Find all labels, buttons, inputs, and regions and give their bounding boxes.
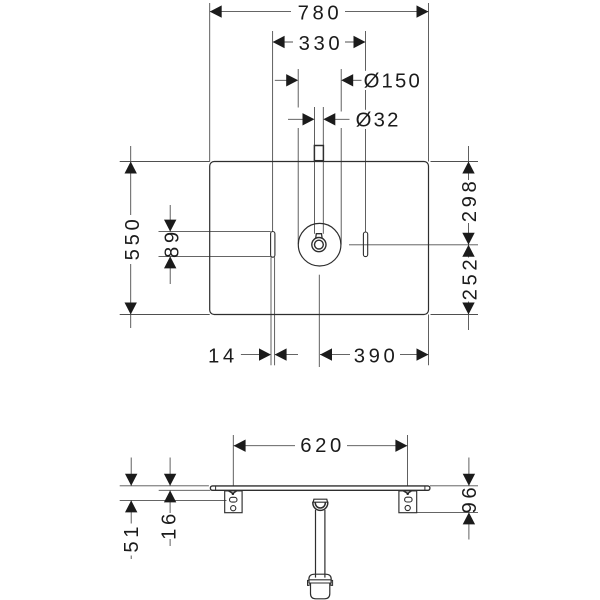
tap hole rect <box>314 146 323 161</box>
arrow 252 top <box>462 245 474 257</box>
arrow 16 top <box>164 474 176 486</box>
svg-text:51: 51 <box>121 523 143 553</box>
arrow 298 top <box>462 162 474 174</box>
arrow 96 top <box>463 474 475 486</box>
trap collar <box>309 574 331 583</box>
wire ext 89 top <box>159 231 271 233</box>
svg-text:89: 89 <box>161 228 183 258</box>
left slot <box>271 232 275 258</box>
wire ext 330 left <box>272 31 274 232</box>
svg-text:550: 550 <box>122 216 144 261</box>
svg-text:96: 96 <box>459 484 481 514</box>
wire ext 550 top <box>120 161 210 163</box>
arrow 620 right <box>395 440 407 452</box>
trap U ring <box>313 502 328 511</box>
svg-text:Ø32: Ø32 <box>356 110 401 132</box>
trap collar band <box>309 579 331 581</box>
label mask 252 <box>460 258 477 302</box>
wire ext d32 left <box>314 107 316 146</box>
wire ext 620 left <box>232 435 234 486</box>
wire ext right top <box>431 161 479 163</box>
arrow 620 left <box>234 440 246 452</box>
wire dim 330 line <box>273 41 293 43</box>
wire ext d150 left <box>297 69 299 108</box>
wire dim 16 line <box>169 458 171 486</box>
label mask 51 <box>122 524 139 556</box>
svg-text:16: 16 <box>159 510 181 540</box>
wire center line below circle <box>318 275 320 367</box>
wire ext lower bracket right <box>417 511 478 513</box>
bracket right clamp dot <box>406 493 409 496</box>
label mask d32 <box>352 110 404 129</box>
wire dim 780 line <box>210 11 291 13</box>
label mask d150 <box>362 71 424 90</box>
wire ext 390 right <box>428 315 430 366</box>
arrow 51 top <box>125 474 137 486</box>
label mask 16 <box>160 513 177 539</box>
bar end divider right <box>424 486 426 490</box>
wire dim 14 tails <box>241 354 263 356</box>
wire dim 51 line <box>130 458 132 486</box>
bracket right <box>399 491 417 513</box>
svg-text:330: 330 <box>299 33 344 55</box>
arrow 14 left <box>259 348 271 360</box>
drain ring inner <box>315 240 324 249</box>
wire dim 89 tails <box>169 205 171 232</box>
wire dim 550 line <box>130 146 132 328</box>
arrow 550 bottom <box>125 303 137 315</box>
arrow 14 right <box>275 348 287 360</box>
bracket left <box>225 491 242 513</box>
bracket right slot hole <box>405 497 413 502</box>
wire ext 89 bottom <box>159 255 271 257</box>
wire ext d32 right <box>322 107 324 146</box>
bar end divider left <box>215 486 217 490</box>
plate outline <box>210 162 429 315</box>
bracket right clamp mark <box>403 491 411 494</box>
bracket right round hole <box>405 505 410 510</box>
wire ext lower bar bottom left <box>159 489 211 491</box>
arrow 390 left <box>320 348 332 360</box>
wire tap hole projection <box>314 161 316 234</box>
wire dim d150 tails <box>275 79 291 81</box>
svg-text:780: 780 <box>298 3 343 25</box>
svg-text:Ø150: Ø150 <box>364 71 422 93</box>
drain tab <box>316 234 322 239</box>
wire ext lower bracket left <box>120 499 227 501</box>
wire ext 780 right <box>428 3 430 162</box>
arrow 780 right <box>417 5 429 17</box>
trap collar tab right <box>331 580 333 585</box>
wire ext lower top left <box>120 485 209 487</box>
wire ext right bottom <box>431 314 479 316</box>
console bar side view <box>210 486 430 490</box>
arrow 89 top <box>164 220 176 232</box>
arrow d150 right <box>341 74 353 86</box>
trap cup <box>311 583 330 599</box>
arrow 330 right <box>354 36 366 48</box>
wire dim d32 tails <box>288 118 307 120</box>
arrow 252 bottom <box>462 303 474 315</box>
svg-text:298: 298 <box>459 178 481 223</box>
basin circle d150 <box>298 223 341 266</box>
arrow d32 left <box>303 113 315 125</box>
label mask 550 <box>123 215 140 264</box>
arrow 550 top <box>125 162 137 174</box>
wire ext 550 bottom <box>120 314 210 316</box>
drain ring outer <box>312 238 326 252</box>
arrow 390 right <box>417 348 429 360</box>
trap collar tab left <box>308 580 310 585</box>
arrow 89 bottom <box>164 256 176 268</box>
wire ext 14 left <box>270 257 272 365</box>
arrow 780 left <box>210 5 222 17</box>
wire ext 14 right <box>274 257 276 365</box>
wire dim 390 line <box>320 354 350 356</box>
svg-text:14: 14 <box>208 346 238 368</box>
bracket left clamp mark <box>229 491 237 494</box>
trap collar bottom line <box>309 582 331 584</box>
arrow d150 left <box>286 74 298 86</box>
bracket left round hole <box>231 506 236 511</box>
trap pipe left <box>315 510 317 578</box>
wire ext mid horizontal <box>349 244 478 246</box>
bracket left clamp dot <box>232 493 235 496</box>
wire dim 620 line <box>234 445 295 447</box>
svg-text:252: 252 <box>460 256 482 301</box>
wire ext 780 left <box>209 3 211 162</box>
trap pipe right <box>324 510 326 578</box>
svg-text:620: 620 <box>300 435 345 457</box>
bracket left slot hole <box>230 497 238 502</box>
arrow d32 right <box>323 113 335 125</box>
wire ext 330 right <box>365 31 367 232</box>
trap flange <box>313 499 327 502</box>
wire ext 620 right <box>407 435 409 486</box>
arrow 96 bottom <box>463 512 475 524</box>
arrow 16 bottom <box>164 490 176 502</box>
wire dim 298 252 line <box>468 146 470 330</box>
right slot <box>363 232 367 257</box>
arrow 51 bottom <box>125 500 137 512</box>
label mask 298 <box>460 180 477 223</box>
arrow 298 bottom <box>462 233 474 245</box>
wire dim 96 line <box>468 458 470 486</box>
wire ext d150 right <box>340 69 342 112</box>
wire ext lower top right <box>430 485 478 487</box>
arrow 330 left <box>273 36 285 48</box>
svg-text:390: 390 <box>354 345 399 367</box>
